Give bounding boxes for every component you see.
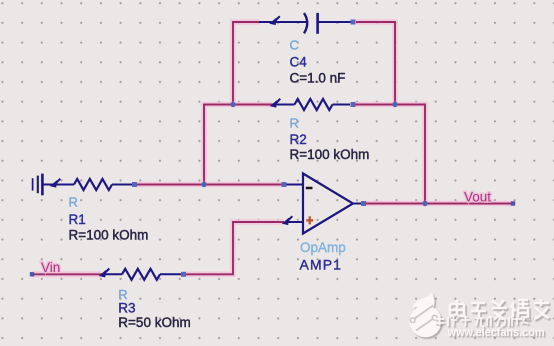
- wire: Vin net (terminal to R3): [32, 271, 101, 277]
- svg-text:AMP1: AMP1: [300, 256, 343, 272]
- label R (component type): [118, 287, 127, 302]
- svg-text:R=100 kOhm: R=100 kOhm: [69, 228, 149, 243]
- label R (component type): [69, 195, 78, 210]
- watermark text row 2 (stylized CJK): [435, 315, 529, 326]
- watermark text row 1 (stylized CJK): [450, 299, 549, 320]
- resistor R1: [42, 179, 132, 190]
- label R2 (designator): [290, 132, 307, 147]
- label R1 (designator): [69, 212, 86, 227]
- svg-text:R: R: [69, 195, 78, 210]
- op-amp U1 (AMP1): [283, 174, 363, 234]
- pin output of op-amp: [361, 201, 366, 206]
- label Vout: [464, 190, 491, 205]
- pin 2 of R3: [181, 272, 186, 277]
- label C4 (designator): [290, 55, 308, 70]
- pin - (inverting input): [282, 182, 313, 188]
- pin 2 of R2: [351, 102, 356, 107]
- svg-text:R2: R2: [290, 132, 307, 147]
- svg-text:C: C: [290, 38, 299, 53]
- svg-text:R=100 kOhm: R=100 kOhm: [290, 147, 370, 162]
- label R3 (designator): [118, 301, 135, 316]
- watermark logo (elecfans): [410, 293, 442, 338]
- label OpAmp (component type): [300, 240, 346, 255]
- svg-text:www.elecfans.com: www.elecfans.com: [447, 325, 545, 339]
- wire: inverting input net (R1 to op-amp minus): [137, 182, 284, 188]
- junction node: feedback joins Vout net: [422, 201, 427, 206]
- resistor R3: [100, 269, 181, 280]
- junction node: C4 right leg joins R2 run: [392, 102, 397, 107]
- wire: R3 output up to op-amp plus input: [186, 222, 285, 274]
- label AMP1 (designator): [300, 256, 343, 272]
- label R (component type): [290, 116, 299, 131]
- wire: R2 feedback loop (left vertical, middle run, right vertical down to output): [204, 105, 425, 204]
- ground: [33, 174, 43, 196]
- label C (component type): [290, 38, 299, 53]
- svg-text:R=50 kOhm: R=50 kOhm: [118, 315, 190, 330]
- wire: Vout net (op-amp output to terminal): [365, 201, 513, 207]
- junction node: C4 left leg joins R2 run: [230, 102, 235, 107]
- label C=1.0 nF (value): [290, 71, 346, 86]
- svg-text:C4: C4: [290, 55, 308, 70]
- watermark text row 3 www.elecfans.com: [447, 325, 545, 339]
- svg-text:Vout: Vout: [464, 190, 491, 205]
- junction node: R2 left leg joins inverting input net: [201, 182, 206, 187]
- pin 2 of C4: [351, 20, 356, 25]
- label R=50 kOhm (value): [118, 315, 190, 330]
- pin 2 of R1: [132, 182, 137, 187]
- svg-text:R1: R1: [69, 212, 86, 227]
- label R=100 kOhm (value): [290, 147, 370, 162]
- svg-text:Vin: Vin: [41, 260, 60, 275]
- terminal Vout: [511, 201, 515, 205]
- terminal Vin: [30, 272, 34, 276]
- label R=100 kOhm (value): [69, 228, 149, 243]
- svg-text:R: R: [290, 116, 299, 131]
- svg-text:OpAmp: OpAmp: [300, 240, 346, 255]
- pin + (non-inverting input): [306, 216, 313, 224]
- svg-text:R3: R3: [118, 301, 135, 316]
- resistor R2: [271, 99, 350, 110]
- svg-text:C=1.0 nF: C=1.0 nF: [290, 71, 346, 86]
- capacitor C4: [259, 13, 351, 34]
- label Vin: [41, 260, 60, 275]
- wire: C4 feedback loop (left vertical, top run, right vertical): [233, 22, 395, 105]
